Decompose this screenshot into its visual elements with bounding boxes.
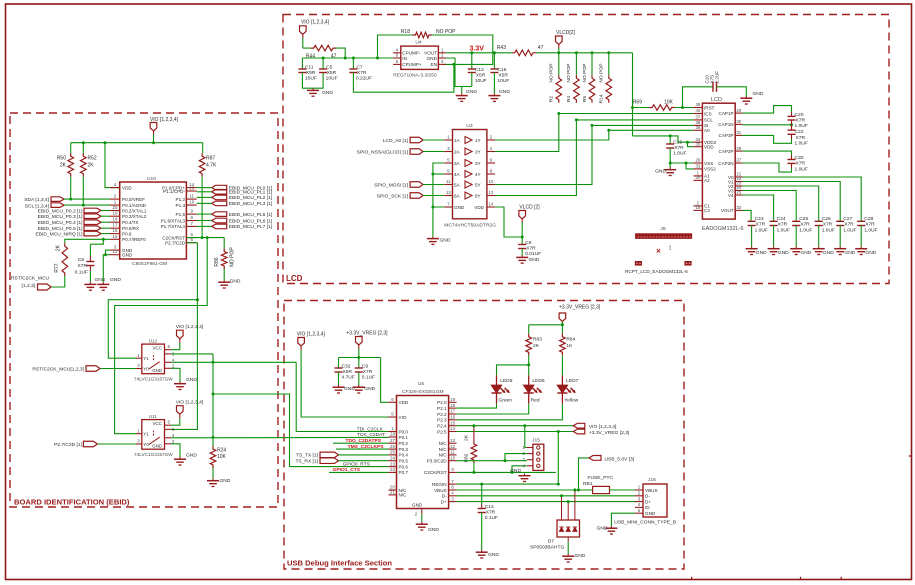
svg-text:GND: GND [823,250,834,256]
wire D7 to ground [567,537,569,542]
U6 pin 7 REGIN [449,483,457,485]
svg-text:x: x [686,234,688,239]
svg-text:GND: GND [412,503,423,508]
wire /CS net (2Y to LCD) [487,114,694,152]
svg-text:X5R: X5R [327,70,337,76]
svg-text:P1.6/XTAL3: P1.6/XTAL3 [161,218,186,223]
U6 pin 1 P0.0 [389,431,397,433]
LCD pin 27 CAP2N [735,162,742,164]
LCD EADOGM132L-6 [702,103,735,219]
svg-text:26: 26 [390,444,395,449]
wire C11 bottom [302,73,323,89]
svg-text:P2.1: P2.1 [437,406,447,411]
svg-text:LED5: LED5 [500,378,513,384]
svg-text:GND: GND [122,253,133,258]
svg-text:D-: D- [442,494,447,499]
wire CAP1P to C20 [743,106,792,114]
svg-text:ID: ID [645,505,650,510]
svg-text:R87: R87 [206,156,215,162]
svg-text:12: 12 [113,249,118,254]
ground R86 [223,280,225,282]
wire SCL net (6Y to LCD) [487,120,694,196]
svg-text:P0.4: P0.4 [399,453,409,458]
J15 pin 3 [527,459,533,461]
U6 pin 19 P2.0 [449,401,457,403]
wire CAP2P to C30 [743,151,792,155]
ground C32 [338,385,340,387]
svg-text:x: x [653,234,655,239]
svg-text:VDD: VDD [704,145,714,150]
svg-text:SPIO_SCK [1]: SPIO_SCK [1] [377,194,409,200]
svg-text:VDD: VDD [122,185,132,190]
net tag EBID_MCU_PL0 [212,185,227,190]
resistor R4 NO POP [575,53,577,75]
svg-text:1.0UF: 1.0UF [864,227,877,233]
capacitor C27 1.0UF [836,220,844,222]
U12 pin 2 GND [165,367,172,369]
wire P2.5 to +3.3V_VREG tag [457,431,574,433]
svg-text:VSS: VSS [704,161,713,166]
svg-text:P0.0: P0.0 [399,429,409,434]
svg-text:D+: D+ [645,499,651,504]
LCD pin 39 /RST [694,107,703,109]
power VIO (LCD) [300,26,307,35]
D7 diode [559,527,563,532]
U6 pin 27 P0.2 [389,442,397,444]
svg-text:GND: GND [778,250,789,256]
wire C27 to ground [839,226,841,247]
capacitor C26 1.0UF [815,220,823,222]
svg-text:/RST: /RST [704,105,715,110]
svg-text:25: 25 [390,450,395,455]
D7 diode [573,527,577,532]
svg-text:23: 23 [390,461,395,466]
svg-text:+3.3V_VREG [2,3]: +3.3V_VREG [2,3] [346,331,388,337]
svg-text:P1.5: P1.5 [176,212,186,217]
svg-text:SCL: SCL [704,118,713,123]
svg-text:19: 19 [695,205,700,210]
svg-text:1.0UF: 1.0UF [777,227,790,233]
svg-text:X7R: X7R [865,222,875,228]
capacitor C9 0.1UF [358,358,360,369]
svg-text:2A: 2A [454,149,461,154]
wire C13 to ground [471,73,473,87]
U6 pin 11 N/C [449,454,457,456]
net tag EBID_MCU_PL3 [212,201,227,206]
svg-text:31: 31 [736,130,741,135]
wire C14 to ground [481,513,483,551]
svg-text:1.0UF: 1.0UF [799,227,812,233]
U6 pin 25 P0.4 [389,454,397,456]
svg-text:22: 22 [390,467,395,472]
svg-text:RST/C2CK_MCU: RST/C2CK_MCU [11,276,50,282]
wire VLCD to /RST pullup [632,53,634,136]
svg-text:GND: GND [186,377,197,383]
svg-text:P0.6: P0.6 [122,231,132,236]
U6 pin 17 P2.2 [449,413,457,415]
wire U12 pin 4 row to TDI feed [171,361,296,363]
svg-text:2K: 2K [533,343,540,349]
power VLCD [2] (U3) [519,211,526,220]
svg-text:NO POP: NO POP [230,247,236,267]
svg-text:EBID_MCU_P0.4 [1]: EBID_MCU_P0.4 [1] [38,220,83,226]
net tag EBID_MCU_P0.5 [84,226,101,231]
wire R52 to SCL [82,177,84,205]
svg-text:4.7K: 4.7K [206,163,217,169]
svg-text:x: x [643,234,645,239]
U10 pin 9 P1.5 [186,213,196,215]
U12 pin 1 B1 [136,357,142,359]
svg-text:VDD: VDD [474,205,484,210]
U11 pin 4 Y [165,437,172,439]
svg-text:47: 47 [331,54,337,60]
power VIO (U12) [171,343,180,350]
svg-text:R43: R43 [497,45,506,51]
sheet border tick marks [691,577,693,580]
resistor R87 4.7K [199,153,205,176]
wire R44 to VIN node [336,48,345,58]
wire LED5 to P2.1 [457,404,497,408]
wire VIN rail to C7 [352,58,354,69]
U10 pin 1 P0.1/AGND [110,204,120,206]
svg-text:26: 26 [695,158,700,163]
svg-text:C7: C7 [356,65,363,71]
LCD pin 36 A0 [694,129,703,131]
svg-text:C32: C32 [342,364,351,370]
svg-text:GND: GND [865,250,876,256]
svg-text:1Y: 1Y [475,138,481,143]
U3 channel 5A/5Y [444,184,452,186]
svg-text:12: 12 [450,444,455,449]
svg-text:U6: U6 [418,381,425,387]
regulator U4 REG710NA-3.3/250 [401,46,439,69]
capacitor C10 2.2UF [683,87,714,108]
wire J15 pin4 to C2CK [512,466,527,473]
svg-text:20: 20 [695,175,700,180]
svg-text:2Y: 2Y [475,149,481,154]
U6 pin 6 VDD [389,401,397,403]
svg-text:GND: GND [655,169,666,175]
wire J16 GND to ground [611,513,635,526]
wire LED7 to P2.3 [457,404,563,420]
svg-text:2.2UF: 2.2UF [714,71,719,84]
LCD pin 29 CAP1P [735,112,742,114]
svg-text:P2.0: P2.0 [437,400,447,405]
svg-text:20: 20 [113,205,118,210]
svg-text:USB Debug Interface Section: USB Debug Interface Section [287,559,392,568]
svg-text:P0.1/AGND: P0.1/AGND [122,203,147,208]
svg-text:GND: GND [575,553,586,559]
D7 diode [566,527,570,532]
svg-text:EBID_MCU_NIRQ [1]: EBID_MCU_NIRQ [1] [35,231,83,237]
svg-text:EBID_MCU_P0.5 [1]: EBID_MCU_P0.5 [1] [38,226,83,232]
svg-text:GND: GND [95,277,106,283]
svg-text:P0.2/XTAL1: P0.2/XTAL1 [122,208,147,213]
U4 pin 3 EN [438,63,446,65]
wire U3 unused inputs to ground [433,163,444,207]
svg-text:U11: U11 [149,414,158,419]
U6 pin 18 P2.1 [449,407,457,409]
svg-text:GND: GND [440,238,451,244]
svg-text:28: 28 [736,146,741,151]
svg-text:15: 15 [450,420,455,425]
wire C15 to ground [493,73,495,94]
U12 pin 6 S [165,353,172,355]
svg-text:P1.2: P1.2 [176,197,186,202]
svg-text:X7R: X7R [756,222,766,228]
svg-text:EBID_MCU_PL1 [1]: EBID_MCU_PL1 [1] [229,190,273,196]
wire bus to R52 [82,143,84,154]
svg-text:X7R: X7R [363,369,373,375]
wire P2.7/C2D tag to U11 pin 3 [97,443,136,445]
svg-text:Y1: Y1 [143,356,149,361]
capacitor C28 1.0UF [857,220,865,222]
ground C10 [745,96,747,98]
svg-text:/CS: /CS [704,111,712,116]
svg-text:GND: GND [152,443,162,448]
capacitor C30 1.0UF [788,159,796,161]
svg-text:EBID_MCU_PL2 [1]: EBID_MCU_PL2 [1] [229,195,273,201]
wire C25 to ground [795,226,797,247]
net tag EBID_MCU_P0.2 [84,208,101,213]
wire R24 to ground [212,468,214,479]
U12 pin 3 B0 [136,368,142,370]
wire C2CK/RST row to U12 [186,237,224,239]
svg-text:GND: GND [529,257,540,263]
svg-text:11: 11 [189,194,194,199]
svg-text:X7R: X7R [796,161,806,167]
svg-text:0.1UF: 0.1UF [75,270,88,276]
svg-text:IN: IN [402,56,407,61]
svg-text:GPIO0_RTS: GPIO0_RTS [343,461,371,467]
U6 pin 22 P0.7 [389,471,397,473]
wire U4 VOUT 3.3V rail [446,52,512,54]
U6 pin 26 P0.3 [389,448,397,450]
svg-text:Y0: Y0 [143,366,149,371]
svg-text:R44: R44 [306,54,315,60]
svg-text:GND: GND [466,89,477,95]
ground C19/VSS [669,163,671,168]
svg-text:10K: 10K [664,99,674,105]
wire J15 pin1 to P2.4 [525,426,527,448]
svg-text:LCD: LCD [286,274,303,283]
net tag LCD_A0 [1] [410,137,423,143]
wire RST tag to U12 pin 3 [100,368,136,370]
U10 pin 15 P0.7/IREF0 [110,238,120,240]
svg-text:1K: 1K [566,343,573,349]
wire R84 to LED7 [561,355,563,375]
svg-text:P2.5: P2.5 [437,429,447,434]
net tag +3.3V_VREG [2,3] (USB right) [573,429,585,434]
wire GPIO0_RTS from junction to U6 P0.6 [213,394,389,467]
U6 pin 3 D+ [449,501,457,503]
section box LCD [283,15,889,284]
wire J15 pin3 to P3.0/C2D [457,460,527,462]
svg-text:P2.7/C2D: P2.7/C2D [165,241,186,246]
U11 pin 2 GND [165,443,172,445]
net tag EBID_MCU_P0.3 [84,214,101,219]
net tag P2.7/C2D [1] [83,441,97,447]
LCD pin 38 SI [694,124,703,126]
ground C8 [89,282,91,284]
U6 pin 14 P2.5 [449,431,457,433]
U6 pin 4 D- [449,495,457,497]
U10 pin 11 P1.2 [186,198,196,200]
LCD pin 25 V4 [735,194,742,196]
ground C9 [358,385,360,387]
U11 pin 3 B0 [136,443,142,445]
LCD pin 19 C2 [694,209,703,211]
power +3.3V_VREG (USB left) [356,337,363,346]
svg-text:X7R: X7R [796,135,806,141]
svg-text:USB_MINI_CONN_TYPE_B: USB_MINI_CONN_TYPE_B [614,520,676,526]
svg-text:47: 47 [538,45,544,51]
wire P2.7 vertical to U11 [171,243,197,430]
svg-text:P2.3: P2.3 [437,418,447,423]
svg-text:P0.4/TX: P0.4/TX [122,220,139,225]
resistor R2 NO POP [558,53,560,75]
svg-text:REGIN: REGIN [432,482,447,487]
LCD pin 1 A1 [694,175,703,177]
svg-text:GND: GND [753,91,764,97]
svg-text:1A: 1A [454,138,461,143]
svg-text:GND: GND [427,56,438,61]
resistor R50 2K [68,153,74,176]
wire U4 GND to ground [446,58,462,93]
svg-text:30: 30 [736,119,741,124]
svg-text:VIO [1,2,3,4]: VIO [1,2,3,4] [589,424,617,430]
svg-text:A2: A2 [704,178,710,183]
wire VIN node rail [302,57,393,59]
svg-text:P0.3/XTAL2: P0.3/XTAL2 [122,214,147,219]
U6 pin 5 VIO [389,416,397,418]
J16 pin 1 VBUS [635,489,643,491]
wire D+ net [457,501,635,503]
resistor R44 47 [311,45,336,51]
svg-text:+3.3V_VREG [2,3]: +3.3V_VREG [2,3] [589,430,630,436]
svg-text:TDI_C2CLK: TDI_C2CLK [357,426,384,432]
wire C22 to CAP3P [791,134,793,139]
svg-text:x: x [671,234,673,239]
svg-text:27: 27 [736,158,741,163]
svg-text:VOUT: VOUT [721,208,734,213]
svg-text:x: x [665,234,667,239]
svg-text:GND: GND [428,527,439,533]
svg-text:P0.0/VREF: P0.0/VREF [122,197,145,202]
svg-text:RST/C2CK_MCU[1,2,3]: RST/C2CK_MCU[1,2,3] [32,367,84,373]
capacitor C22 1.0UF [788,129,796,131]
resistor R86 NO POP [223,238,225,249]
wire V1 to cap [743,182,841,222]
U10 pin 7 P1.7/XTAL4 [186,225,196,227]
svg-text:GND: GND [510,468,521,474]
wire P0.3 stub [336,448,389,450]
wire SDA to U10 pin 2 [64,198,110,200]
wire P2.7 branch to U12 pin 1 [108,300,197,359]
svg-text:NO POP: NO POP [549,63,555,82]
section box USB Debug Interface Section [284,301,684,570]
capacitor C14 0.1UF [480,483,483,486]
wire U3 GND to ground [432,207,434,236]
svg-text:C5: C5 [326,65,333,71]
svg-text:P0.5/RX: P0.5/RX [122,226,139,231]
net tag SCL [1,3,4] [51,203,64,208]
wire VSS row [670,162,693,164]
U10 pin 16 P0.6 [110,233,120,235]
svg-text:11: 11 [450,450,455,455]
J15 pin 4 [527,465,533,467]
ground U11 [171,444,180,457]
resistor R43 47 [512,50,536,56]
svg-text:GND: GND [220,478,231,484]
wire VBUS row [457,489,593,491]
U10 pin 20 P0.2/XTAL1 [110,210,120,212]
ground C27 [839,247,841,249]
wire R50 to SDA [70,177,72,199]
wire C7 bottom loop to EN [353,64,454,92]
svg-text:2K: 2K [463,434,469,441]
svg-text:CAP2P: CAP2P [719,149,734,154]
svg-text:1.0UF: 1.0UF [843,227,856,233]
U10 pin 2 P0.0/VREF [110,198,120,200]
svg-text:40: 40 [695,108,700,113]
svg-text:GND: GND [844,250,855,256]
MCU U6 CF326-SX0261GM [397,396,449,509]
LED LED7 Yellow [561,375,563,385]
svg-text:P1.7/XTAL4: P1.7/XTAL4 [161,224,186,229]
svg-text:EBID_MCU_PL3 [1]: EBID_MCU_PL3 [1] [229,201,273,207]
U6 pin 12 N/C [449,448,457,450]
svg-text:P2.4: P2.4 [437,424,447,429]
svg-text:VIO [1,2,3,4]: VIO [1,2,3,4] [150,117,179,123]
svg-text:GND: GND [645,511,656,516]
svg-text:NO POP: NO POP [436,29,456,35]
svg-text:x: x [674,234,676,239]
U6 pin 21 N/C [389,494,397,496]
resistor R52 2K [81,153,87,176]
svg-text:P2.7/C2D [1]: P2.7/C2D [1] [54,442,83,448]
svg-text:74LVC1G3157GW: 74LVC1G3157GW [134,452,173,457]
svg-text:P0.1: P0.1 [399,435,409,440]
U10 pin 12 GND [110,254,120,256]
LCD pin 40 /CS [694,113,703,115]
wire R82 to C2CK row [473,463,475,472]
U10 pin 19 P0.3/XTAL2 [110,215,120,217]
svg-text:N/C: N/C [399,493,408,498]
U10 pin 8 P1.6/XTAL3 [186,220,196,222]
svg-text:X7R: X7R [77,263,87,269]
MCU U10 C8051F981-GM [120,182,187,259]
J15 pin 2 [527,453,533,455]
net tag SDA [1,3,4] [51,197,64,202]
svg-text:2K: 2K [56,244,62,251]
svg-text:28: 28 [390,432,395,437]
svg-text:C25: C25 [799,216,808,222]
U10 pin 18 P0.4/TX [110,221,120,223]
wire bus to R50 [70,143,72,154]
LCD pin 21 V0 [735,176,742,178]
svg-text:LCD: LCD [711,97,722,103]
wire C26 to ground [818,226,820,247]
svg-text:EBID_MCU_P0.2 [1]: EBID_MCU_P0.2 [1] [38,208,83,214]
ground C15 [493,93,495,95]
ground C24 [773,247,775,249]
wire V0 to cap [743,177,862,221]
svg-text:C22: C22 [795,129,804,135]
svg-text:x: x [640,234,642,239]
U6 pin 10 P3.0/C2D [449,460,457,462]
svg-text:3Y: 3Y [475,161,481,166]
